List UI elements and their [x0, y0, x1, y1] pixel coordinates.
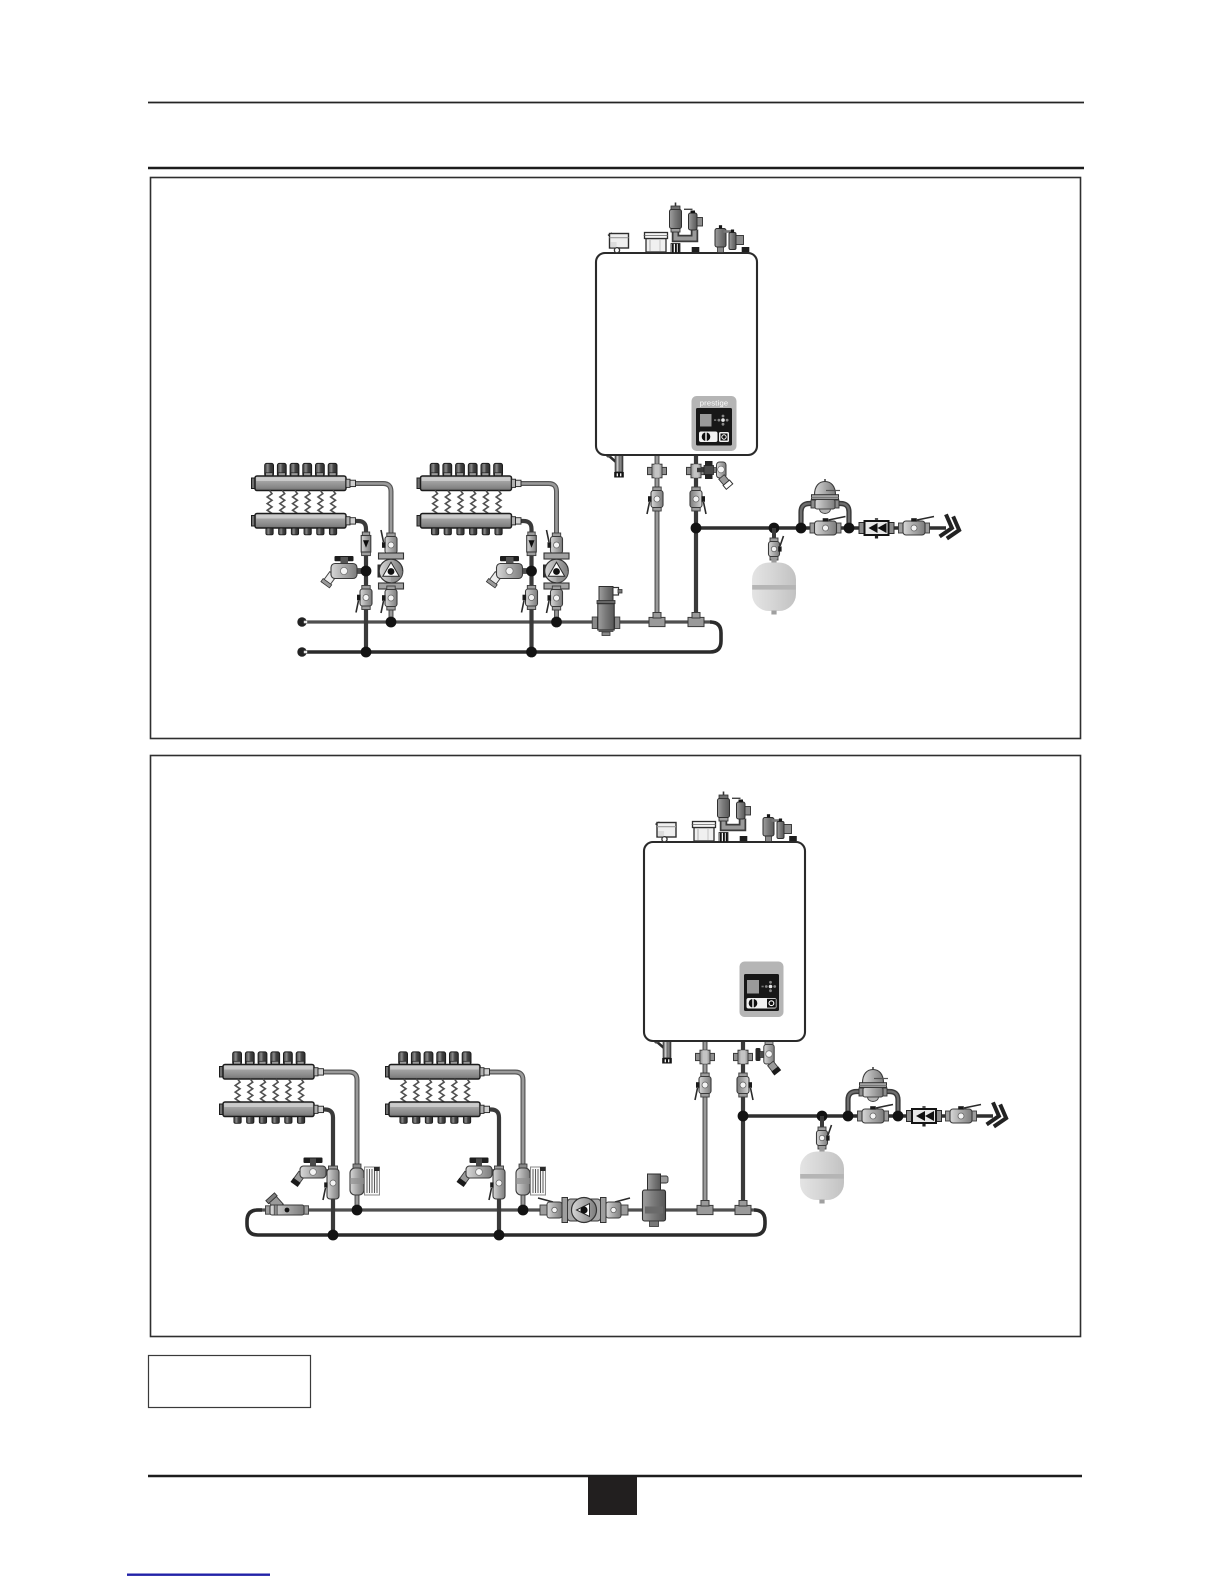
svg-text:prestige: prestige	[700, 398, 729, 407]
